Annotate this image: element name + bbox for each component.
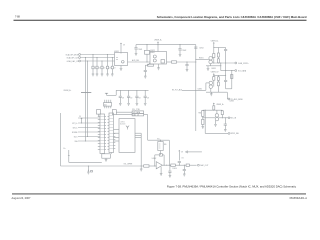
capacitor C0914 xyxy=(144,90,146,96)
wire strip left net 2 xyxy=(78,127,100,129)
wire mux top pin xyxy=(106,100,108,103)
wire bus vertical B xyxy=(87,61,89,137)
ground xyxy=(144,75,147,77)
wire mux top pin xyxy=(104,100,106,103)
svg-text:VOL: VOL xyxy=(157,138,160,140)
svg-text:SCLK: SCLK xyxy=(74,136,78,138)
transistor Q0931 xyxy=(209,81,212,84)
net label box left xyxy=(97,110,101,115)
ground xyxy=(183,173,186,175)
svg-text:C9: C9 xyxy=(109,67,111,69)
output pin RX_AUD_SEND xyxy=(228,98,230,100)
resistor R0953 xyxy=(171,164,176,166)
wire supply to rail xyxy=(107,94,117,96)
ground xyxy=(169,175,172,177)
capacitor C0953 xyxy=(178,160,181,162)
svg-text:B+: B+ xyxy=(64,148,66,150)
op-amp U0952 xyxy=(156,162,162,169)
ground xyxy=(92,73,95,75)
resistor R0924 xyxy=(217,59,219,63)
capacitor C0935 xyxy=(111,58,113,67)
capacitor C0913 xyxy=(136,90,138,96)
svg-text:GCAI_SPKR+: GCAI_SPKR+ xyxy=(238,62,249,65)
net label box SPI_DATA xyxy=(132,111,144,114)
wire strip pin xyxy=(98,131,100,133)
transistor Q0962 xyxy=(215,117,218,120)
wire strip left net 1 xyxy=(78,122,100,124)
resistor R0954 xyxy=(186,164,189,166)
svg-text:Figure 7-58. PMLN4639A / PMLN4: Figure 7-58. PMLN4639A / PMLN4641A Contr… xyxy=(167,185,297,189)
capacitor C0955 xyxy=(183,165,185,169)
wire volume inner xyxy=(69,161,102,163)
svg-text:C9: C9 xyxy=(104,67,106,69)
wire SPI_CLK xyxy=(81,57,115,59)
wire mux rail xyxy=(116,89,148,91)
wire strip pin right xyxy=(114,133,116,135)
svg-text:C0942: C0942 xyxy=(182,50,187,52)
svg-text:UNSW_5V: UNSW_5V xyxy=(211,72,220,74)
wire strip pin xyxy=(98,128,100,130)
section box left xyxy=(60,113,62,166)
svg-text:C9: C9 xyxy=(99,67,101,69)
resistor R0952 xyxy=(159,154,162,156)
bus bar xyxy=(81,92,91,94)
svg-text:R0925: R0925 xyxy=(212,68,217,70)
ground xyxy=(105,158,107,159)
IC strip left U0903 xyxy=(100,114,105,154)
resistor R0923 xyxy=(217,53,219,57)
ground xyxy=(207,66,209,69)
wire U0931 gnd pin xyxy=(120,66,122,69)
svg-text:UNSW_B+: UNSW_B+ xyxy=(211,40,219,42)
svg-text:GCAI_SPI_MOSI: GCAI_SPI_MOSI xyxy=(65,53,79,56)
mux IC U0941 xyxy=(104,103,112,107)
IC strip right U0904 xyxy=(109,113,114,153)
capacitor C0931 xyxy=(225,75,227,80)
wire SPI net 2 xyxy=(116,114,132,116)
wire stage1 input xyxy=(196,58,209,60)
wire strip left net 0 xyxy=(78,117,100,119)
wire strip pin xyxy=(98,149,100,151)
wire strip left net 3 xyxy=(78,131,100,133)
svg-text:SCI_DATA: SCI_DATA xyxy=(238,69,247,72)
wire mux bottom pin xyxy=(104,106,106,108)
wire strip pin xyxy=(98,146,100,148)
svg-text:R95: R95 xyxy=(164,144,167,146)
wire to op-amp xyxy=(149,165,156,167)
ground xyxy=(101,73,104,75)
ground xyxy=(120,67,123,69)
capacitor C0941 xyxy=(135,45,137,48)
wire supply rail stage1 xyxy=(214,47,226,49)
svg-text:R0941: R0941 xyxy=(150,52,155,54)
svg-text:GCAI_DAC_CS: GCAI_DAC_CS xyxy=(67,60,80,63)
wire strip pin xyxy=(98,140,100,142)
svg-text:C9: C9 xyxy=(147,98,149,100)
wire DAC out vertical xyxy=(140,133,142,166)
DAC U0951 AD5320 xyxy=(119,119,135,153)
resistor R0933 xyxy=(217,82,219,86)
svg-text:August 24, 2007: August 24, 2007 xyxy=(12,196,31,200)
transistor Q0932 xyxy=(209,85,212,88)
ground xyxy=(127,102,130,104)
wire mux top pin xyxy=(108,100,110,103)
svg-text:C0932: C0932 xyxy=(198,88,203,90)
ground xyxy=(87,166,89,172)
ground xyxy=(135,53,138,55)
resistor R0932 xyxy=(217,77,219,81)
svg-text:OPT_B+: OPT_B+ xyxy=(72,123,78,125)
svg-text:U0952: U0952 xyxy=(152,158,157,160)
svg-text:MIC_IN: MIC_IN xyxy=(230,118,237,120)
capacitor C0961 xyxy=(224,118,226,124)
wire strip pin xyxy=(98,143,100,145)
wire volume bottom xyxy=(61,165,144,167)
capacitor C0931 xyxy=(92,55,94,67)
svg-text:GCAI_SPI_CLK: GCAI_SPI_CLK xyxy=(66,56,79,59)
resistor R0922 xyxy=(213,54,215,58)
capacitor C0912 xyxy=(128,90,130,96)
wire audio to notch IC xyxy=(128,61,151,63)
wire SPI net 1 xyxy=(116,111,132,113)
ground xyxy=(119,102,122,104)
svg-text:C9: C9 xyxy=(122,98,124,100)
wire strip pin xyxy=(98,116,100,118)
wire U0921 bottom left xyxy=(148,63,150,65)
crystal Y0952 bottom xyxy=(102,154,111,158)
wire U0921 gnd pin xyxy=(158,64,160,68)
svg-text:C0961: C0961 xyxy=(229,101,234,103)
transistor Q0922 xyxy=(209,60,212,63)
capacitor C0923 xyxy=(224,48,227,50)
wire strip pin right xyxy=(114,142,116,144)
wire mux bottom pin xyxy=(108,106,110,108)
wire SCI branch xyxy=(220,63,222,71)
svg-text:DAC_OUT: DAC_OUT xyxy=(200,164,208,167)
resistor R0964 xyxy=(221,109,223,112)
ground stage3 emitter xyxy=(215,121,217,125)
wire SPI_MOSI xyxy=(81,54,115,56)
wire stage1 output xyxy=(212,62,235,64)
svg-text:UNSW_B+: UNSW_B+ xyxy=(216,104,224,106)
net label box right xyxy=(112,110,116,115)
wire strip pin right xyxy=(114,139,116,141)
ground xyxy=(224,129,227,131)
resistor R0944 xyxy=(148,64,154,66)
svg-text:U0921: U0921 xyxy=(150,50,155,52)
svg-text:SW_B+: SW_B+ xyxy=(73,127,78,129)
wire stage3 bottom xyxy=(204,110,206,133)
ground xyxy=(106,73,109,75)
svg-text:VOL_WIPER: VOL_WIPER xyxy=(124,164,134,166)
svg-text:UNSW_B+: UNSW_B+ xyxy=(154,40,162,42)
transistor Q0921 xyxy=(209,57,212,60)
transistor Q0961 xyxy=(215,114,218,117)
wire bus vertical A xyxy=(85,58,87,142)
svg-text:C0954: C0954 xyxy=(172,168,177,170)
output pin DAC_OUT xyxy=(198,164,200,166)
ground xyxy=(202,126,205,128)
svg-text:7-88: 7-88 xyxy=(15,15,20,18)
wire strip pin right xyxy=(114,145,116,147)
wire strip pin right xyxy=(114,148,116,150)
wire mux top pin xyxy=(110,100,112,103)
antenna symbol xyxy=(127,126,129,129)
supply U0931 vcc xyxy=(120,43,122,44)
supply mux xyxy=(105,92,108,94)
svg-text:VOL_CTRL: VOL_CTRL xyxy=(132,109,140,111)
svg-text:R0921: R0921 xyxy=(199,58,204,60)
resistor R0961 xyxy=(213,106,215,110)
wire vertical net xyxy=(195,47,197,131)
svg-text:Schematics, Component Location: Schematics, Component Location Diagrams,… xyxy=(157,15,307,19)
ground rail opamp supply xyxy=(188,151,202,153)
wire opamp output xyxy=(162,164,170,166)
ground xyxy=(186,69,189,71)
svg-text:C9: C9 xyxy=(114,67,116,69)
capacitor C0934 xyxy=(107,55,109,67)
wire notch output xyxy=(167,61,172,63)
svg-text:SPKR_SEL: SPKR_SEL xyxy=(230,133,239,135)
wire stage3 output xyxy=(219,117,229,119)
capacitor C0921 xyxy=(144,65,146,70)
svg-text:C0922: C0922 xyxy=(199,48,204,50)
wire stage2 output xyxy=(226,92,228,99)
svg-text:C0941: C0941 xyxy=(138,49,143,51)
svg-text:C9: C9 xyxy=(139,98,141,100)
wire strip pin xyxy=(98,119,100,121)
wire stage1 emitter rail xyxy=(206,65,221,67)
ground xyxy=(157,67,160,69)
resistor R0926 xyxy=(231,75,233,79)
wire DAC_CS xyxy=(81,60,115,62)
wire strip pin xyxy=(98,125,100,127)
svg-text:5V: 5V xyxy=(123,44,125,46)
svg-text:5V: 5V xyxy=(181,152,183,154)
capacitor C0911 xyxy=(119,90,121,96)
notch IC U0921 xyxy=(150,52,167,65)
wire strip left net 5 xyxy=(78,140,100,142)
ground xyxy=(144,102,147,104)
net label box DAC_CS xyxy=(132,113,144,116)
header rule xyxy=(14,19,307,21)
wire feedback xyxy=(154,155,156,166)
output pin GCAI_SPKR+ xyxy=(235,62,237,64)
wire base tap xyxy=(203,117,215,119)
ground xyxy=(111,73,114,75)
ground xyxy=(96,73,99,75)
resistor R0951 xyxy=(144,165,149,167)
wire strip pin right xyxy=(114,136,116,138)
svg-text:5V: 5V xyxy=(79,116,81,118)
resistor R0963 xyxy=(202,116,204,119)
capacitor C0954 xyxy=(169,165,171,171)
capacitor C0943 xyxy=(186,62,188,65)
wire strip pin xyxy=(98,137,100,139)
svg-text:R96: R96 xyxy=(198,112,201,114)
resistor R0943 xyxy=(172,61,177,63)
wire opamp gnd xyxy=(160,167,162,174)
wire strip pin xyxy=(98,122,100,124)
resistor R0941 xyxy=(146,45,148,51)
wire stage2 emitter rail xyxy=(206,91,227,93)
op-amp U0931 xyxy=(115,53,128,66)
footer rule xyxy=(12,193,306,195)
wire DAC input pins xyxy=(114,128,120,130)
wire top rail xyxy=(136,44,196,46)
ground xyxy=(136,102,139,104)
capacitor C0933 xyxy=(101,61,103,66)
capacitor C0942 xyxy=(179,45,181,49)
resistor R0962 xyxy=(202,109,204,111)
capacitor C0922 xyxy=(194,46,197,48)
svg-text:RX_AUD_SEND: RX_AUD_SEND xyxy=(230,98,243,101)
svg-text:6816532H01-A: 6816532H01-A xyxy=(290,196,308,200)
ground xyxy=(179,53,182,55)
ground xyxy=(210,92,212,94)
svg-text:C95: C95 xyxy=(181,158,184,160)
wire DAC route xyxy=(144,114,148,116)
wire DAC output pins xyxy=(135,132,141,134)
svg-text:C9: C9 xyxy=(130,98,132,100)
wire stage3 rail xyxy=(203,109,223,111)
svg-text:U41: U41 xyxy=(104,104,107,106)
output pin SCI_DATA xyxy=(235,70,237,72)
wire supply rail stage2 xyxy=(214,74,226,76)
wire strip pin xyxy=(98,134,100,136)
output pin MIC_IN xyxy=(228,117,230,119)
svg-text:UNSW_B+: UNSW_B+ xyxy=(64,90,72,92)
output pin SPKR_SEL xyxy=(228,133,230,135)
svg-text:U0951: U0951 xyxy=(120,121,125,123)
wire feedback loop xyxy=(225,71,227,76)
resistor R0931 xyxy=(213,77,215,81)
wire mux bottom pin xyxy=(110,106,112,108)
capacitor C0932 xyxy=(96,58,98,67)
wire stage2 input xyxy=(182,89,206,91)
digital pot U0953 xyxy=(158,142,163,151)
supply 5V strip xyxy=(81,118,83,119)
svg-text:U0931: U0931 xyxy=(114,51,119,53)
ground xyxy=(160,173,163,175)
wire strip left net 4 xyxy=(78,136,100,138)
wire mux bottom pin xyxy=(106,106,108,108)
